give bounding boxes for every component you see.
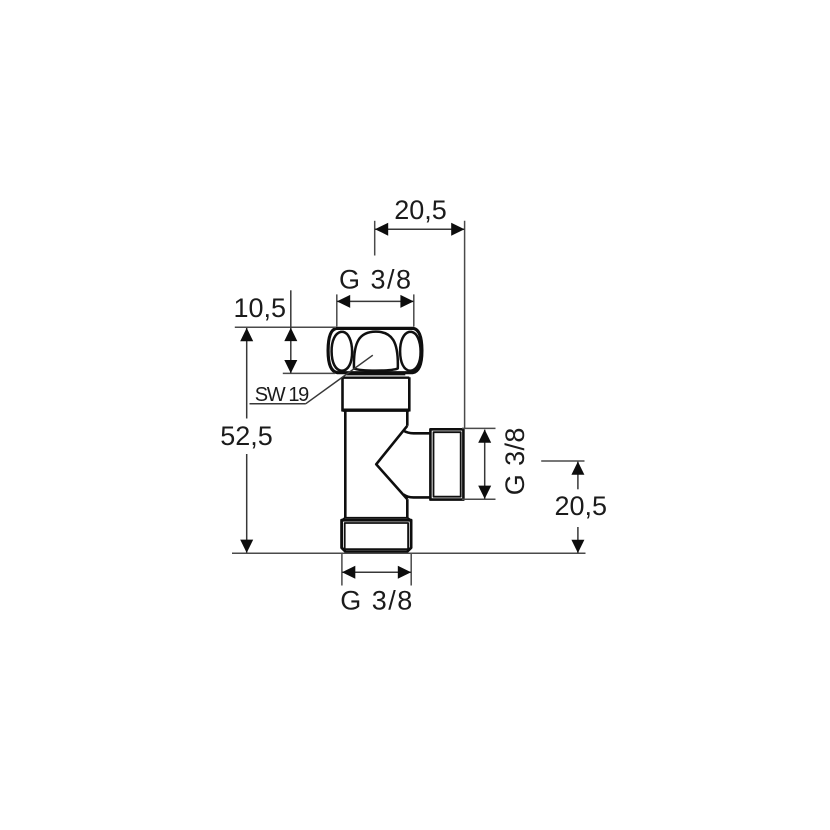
dimension 20,5 top: extension line right (464, 221, 466, 429)
svg-text:20,5: 20,5 (394, 195, 447, 225)
dimension 20,5 top: extension line left (374, 221, 376, 256)
washer ring under nut (347, 373, 404, 376)
dimension G 3/8 top: dimension line (337, 300, 414, 302)
dimension G 3/8 right: arrowhead down (478, 486, 491, 499)
bottom collar thread inner lines (345, 523, 408, 549)
dimension 52,5: dimension line upper part (246, 328, 248, 419)
body tube right edge lower (406, 499, 409, 517)
dimension 20,5 top: arrowhead right (451, 223, 464, 236)
union nut right lobe (400, 332, 421, 371)
transition chamfer to bottom collar (342, 518, 412, 521)
body tube right edge upper (406, 411, 409, 425)
dimension G 3/8 top: arrowhead right (400, 295, 413, 308)
dimension G 3/8 bottom: arrowhead left (342, 566, 355, 579)
dimension G 3/8 right: extension line top (462, 427, 496, 429)
side port G3/8 thread outer (430, 429, 463, 499)
dimension G 3/8 bottom: extension line right (410, 554, 412, 586)
dimension 10,5: arrowhead up (284, 328, 297, 341)
dimension 20,5 right: dimension line lower part (577, 527, 579, 553)
union nut centre lobe (354, 332, 398, 371)
bottom face long extension line (232, 552, 586, 554)
dimension 20,5 top: dimension line (375, 228, 464, 230)
bottom collar G3/8 thread outer (342, 520, 412, 551)
svg-text:52,5: 52,5 (220, 421, 273, 451)
nut bottom extension line (for 10,5) (283, 372, 335, 374)
svg-text:20,5: 20,5 (555, 491, 608, 521)
side port neck top (403, 431, 430, 434)
dimension G 3/8 top: extension line left (336, 294, 338, 326)
svg-text:G 3/8: G 3/8 (339, 264, 413, 294)
dimension 10,5: vertical line with overshoot (290, 290, 292, 373)
svg-text:SW 19: SW 19 (255, 384, 309, 406)
dimension G 3/8 top: arrowhead left (337, 295, 350, 308)
SW 19 leader diagonal (306, 355, 373, 404)
dimension G 3/8 right: arrowhead up (478, 430, 491, 443)
SW 19 leader underline (250, 403, 306, 405)
dimension G 3/8 top: extension line right (413, 294, 415, 326)
svg-text:G 3/8: G 3/8 (340, 586, 414, 616)
dimension 20,5 right: arrowhead down (571, 540, 584, 553)
dimension G 3/8 right: dimension line (484, 430, 486, 499)
dimension G 3/8 right: extension line bottom (462, 498, 496, 500)
union nut SW19 outer outline (328, 328, 422, 372)
dimension G 3/8 bottom: arrowhead right (398, 566, 411, 579)
dimension 20,5 right: extension line top (541, 460, 584, 462)
dimension 52,5: arrowhead down (240, 540, 253, 553)
union nut left lobe (332, 332, 353, 371)
dimension 20,5 right: arrowhead up (571, 462, 584, 475)
dimension 52,5: dimension line lower part (246, 454, 248, 553)
svg-text:G 3/8: G 3/8 (500, 427, 530, 495)
dimension G 3/8 bottom: dimension line (342, 571, 411, 573)
dimension 52,5: arrowhead up (240, 328, 253, 341)
bonnet dark band (343, 409, 410, 412)
dimension G 3/8 bottom: extension line left (341, 554, 343, 586)
dimension 10,5: arrowhead down (284, 360, 297, 373)
bonnet cylinder (343, 377, 410, 379)
V intersection notch (376, 426, 407, 499)
dimension 20,5 top: arrowhead left (375, 223, 388, 236)
nut top extension line (datum for 10,5 and 52,5) (235, 326, 336, 328)
dimension 20,5 right: dimension line upper part (577, 462, 579, 490)
side port thread inner lines (434, 432, 461, 497)
body tube left edge (344, 411, 347, 517)
side port neck bottom (403, 494, 430, 497)
svg-text:10,5: 10,5 (233, 293, 286, 323)
